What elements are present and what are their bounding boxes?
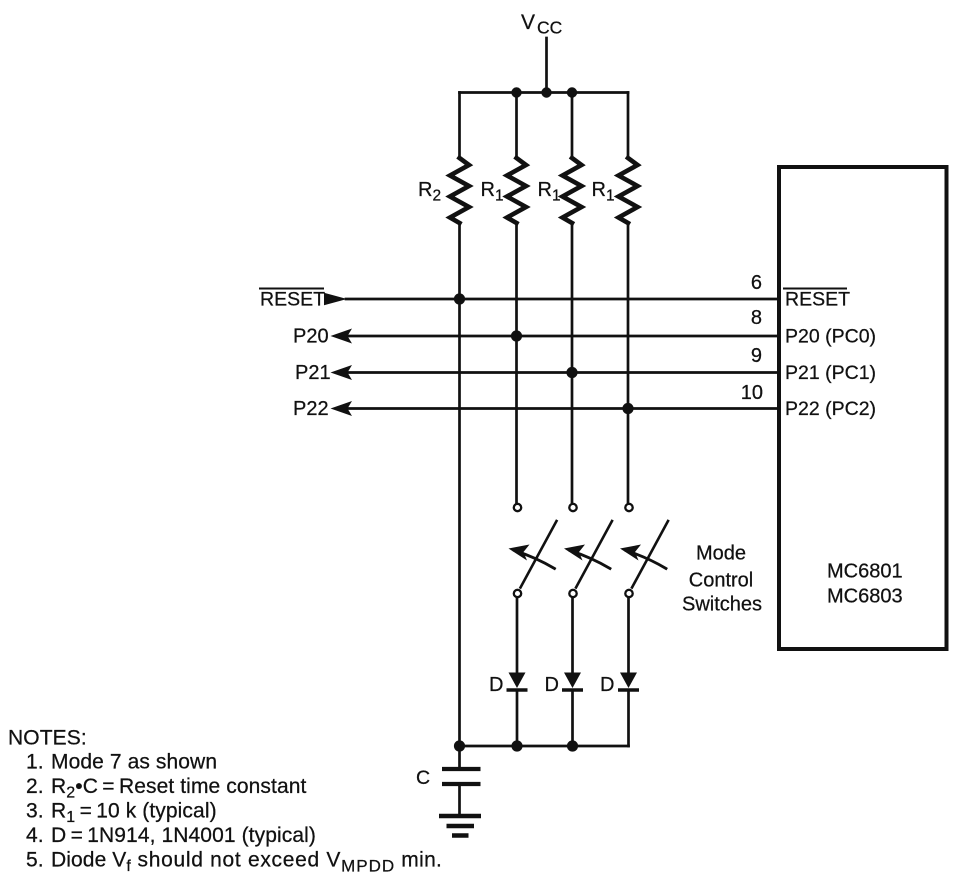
- svg-text:10: 10: [741, 382, 763, 404]
- wire col3 switch to diode: [571, 598, 574, 673]
- svg-text:D: D: [545, 674, 559, 696]
- wire bottom bus: [460, 745, 629, 748]
- svg-text:P22: P22: [293, 398, 329, 420]
- svg-text:9: 9: [751, 345, 762, 367]
- svg-text:R1 = 10 k (typical): R1 = 10 k (typical): [51, 800, 217, 827]
- svg-text:V: V: [521, 11, 535, 34]
- P22 arrow: [331, 401, 353, 416]
- wire col4 to switch: [627, 223, 630, 503]
- svg-text:Switches: Switches: [682, 594, 762, 616]
- switch S2 motion arrow: [570, 551, 610, 569]
- wire col4 diode to bus: [627, 690, 630, 746]
- switch S3 blade: [632, 521, 668, 588]
- junction dot P21 x col3: [566, 367, 577, 378]
- resistor R1 (first): [507, 158, 526, 223]
- junction dot top bus col2: [511, 87, 521, 97]
- pin label RESET (inside box, overline): [784, 289, 850, 311]
- svg-text:P21 (PC1): P21 (PC1): [785, 362, 876, 384]
- svg-text:RESET: RESET: [785, 289, 850, 311]
- svg-text:1: 1: [552, 188, 561, 205]
- svg-text:D: D: [600, 674, 614, 696]
- resistor R1 (second): [563, 158, 582, 223]
- svg-text:2.: 2.: [26, 775, 44, 798]
- svg-text:NOTES:: NOTES:: [8, 727, 87, 750]
- junction dot bottom bus col2: [511, 740, 522, 751]
- wire col1 upper lead: [458, 93, 461, 159]
- svg-text:1: 1: [606, 188, 615, 205]
- P20 arrow: [331, 329, 353, 344]
- switch S1 blade: [521, 521, 557, 588]
- svg-text:MC6801: MC6801: [827, 561, 903, 583]
- switch S2 top terminal: [569, 504, 576, 511]
- switch S1 top terminal: [514, 504, 521, 511]
- switch S3 bottom terminal: [625, 590, 632, 597]
- resistor R1 (third): [619, 158, 638, 223]
- svg-text:Mode 7 as shown: Mode 7 as shown: [51, 751, 217, 774]
- svg-text:R: R: [418, 179, 432, 201]
- svg-text:R: R: [481, 179, 495, 201]
- switch S3 motion arrow: [626, 551, 666, 569]
- svg-text:6: 6: [751, 272, 762, 294]
- svg-text:D = 1N914, 1N4001 (typical): D = 1N914, 1N4001 (typical): [51, 824, 316, 847]
- svg-text:C: C: [416, 767, 430, 789]
- diode D (col4): [620, 673, 637, 689]
- svg-text:Mode: Mode: [696, 543, 746, 565]
- svg-text:RESET: RESET: [260, 289, 325, 311]
- svg-text:P20 (PC0): P20 (PC0): [785, 326, 876, 348]
- svg-text:R: R: [592, 179, 606, 201]
- junction dot RESET x col1: [454, 293, 465, 304]
- diode D (col3): [564, 673, 581, 689]
- wire col3 diode to bus: [571, 690, 574, 746]
- power VCC label: [521, 11, 562, 38]
- resistor R2: [450, 158, 469, 223]
- switch S2 blade: [576, 521, 612, 588]
- wire P22 line: [348, 407, 777, 410]
- wire top bus: [460, 91, 629, 94]
- switch S1 bottom terminal: [514, 590, 521, 597]
- svg-text:P22 (PC2): P22 (PC2): [785, 398, 876, 420]
- svg-text:Control: Control: [689, 570, 753, 592]
- svg-text:5.: 5.: [26, 849, 44, 872]
- svg-text:P21: P21: [295, 362, 331, 384]
- capacitor C: [442, 746, 481, 813]
- svg-text:8: 8: [751, 307, 762, 329]
- wire col2 diode to bus: [516, 690, 519, 746]
- wire col2 to switch: [515, 223, 518, 503]
- P21 arrow: [331, 365, 353, 380]
- IC U1 MC6801/MC6803 box: [779, 167, 947, 649]
- switch S1 motion arrow: [515, 551, 555, 569]
- wire P21 line: [348, 371, 777, 374]
- node RESET label (left, with overline): [260, 289, 325, 311]
- wire col1 full vertical run: [458, 223, 461, 746]
- RESET input arrow: [324, 293, 347, 305]
- diode D (col2): [509, 673, 526, 689]
- junction dot top bus col3: [567, 87, 577, 97]
- svg-text:CC: CC: [537, 18, 562, 38]
- label R2: [418, 179, 441, 205]
- wire P20 line: [348, 335, 777, 338]
- wire col4 switch to diode: [627, 598, 630, 673]
- wire col3 upper lead: [571, 93, 574, 159]
- junction dot top bus VCC: [541, 87, 551, 97]
- label R1 first: [481, 179, 504, 205]
- junction dot bottom bus col3: [567, 740, 578, 751]
- label R1 second: [538, 179, 561, 205]
- svg-text:2: 2: [433, 188, 442, 205]
- svg-text:4.: 4.: [26, 824, 44, 847]
- wire col3 to switch: [571, 223, 574, 503]
- junction dot P22 x col4: [622, 403, 633, 414]
- wire col2 switch to diode: [516, 598, 519, 673]
- svg-text:3.: 3.: [26, 800, 44, 823]
- wire col4 upper lead: [627, 93, 630, 159]
- svg-text:R2•C = Reset time constant: R2•C = Reset time constant: [51, 775, 307, 802]
- ground symbol: [439, 816, 481, 836]
- svg-text:MC6803: MC6803: [827, 586, 903, 608]
- wire VCC stem: [545, 38, 548, 93]
- notes text block: [8, 727, 442, 876]
- label Mode Control Switches: [682, 543, 762, 616]
- label R1 third: [592, 179, 615, 205]
- svg-text:D: D: [489, 674, 503, 696]
- switch S3 top terminal: [625, 504, 632, 511]
- wire col2 upper lead: [515, 93, 518, 159]
- switch S2 bottom terminal: [569, 590, 576, 597]
- svg-text:1: 1: [495, 188, 504, 205]
- junction dot P20 x col2: [511, 330, 522, 341]
- svg-text:R: R: [538, 179, 552, 201]
- junction dot bottom bus col1: [454, 740, 465, 751]
- svg-text:1.: 1.: [26, 751, 44, 774]
- wire RESET line: [346, 298, 777, 301]
- svg-text:P20: P20: [293, 326, 329, 348]
